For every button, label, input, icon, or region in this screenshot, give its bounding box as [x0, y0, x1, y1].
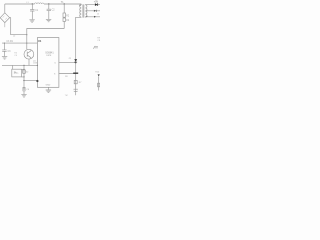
wire secondary return: [85, 16, 100, 18]
wire mid startup line: [27, 29, 64, 50]
wire bridge right vertex down and right: [10, 18, 27, 35]
wire secondary tap out: [85, 10, 100, 12]
labels: [6, 0, 100, 97]
zener VR1: [74, 59, 77, 62]
wire feedback line: [23, 65, 25, 94]
wire secondary top out: [85, 4, 100, 6]
node FB: [23, 80, 24, 81]
ground: [29, 20, 34, 22]
wire rail A: [2, 42, 37, 44]
transistor Q1: [24, 49, 34, 59]
node phase dots: [79, 5, 80, 6]
svg-text:C3 R1: C3 R1: [6, 41, 13, 43]
diode D6: [94, 10, 96, 12]
wire bridge top to rail: [4, 4, 6, 13]
ground: [46, 19, 51, 21]
capacitor C1: [32, 3, 33, 4]
svg-text:+5V: +5V: [94, 0, 99, 3]
wire opto to line: [21, 69, 24, 77]
node: [23, 65, 24, 66]
svg-text:U1: U1: [38, 39, 42, 43]
diode D5: [95, 3, 98, 6]
zener VR2 on feedback: [23, 70, 26, 73]
transformer core: [83, 4, 84, 17]
resistor R2: [63, 4, 65, 18]
IC bottom pin ground: [47, 87, 49, 89]
svg-text:C8: C8: [97, 40, 100, 42]
diode D3 dark bar: [73, 72, 78, 74]
optocoupler PC1: [12, 69, 22, 77]
ground: [21, 95, 26, 97]
diode D2: [63, 18, 66, 21]
wire emitter down: [28, 59, 30, 65]
wire rail B: [2, 64, 37, 66]
TL431 U3 right edge: [98, 74, 100, 76]
capacitor C2: [48, 3, 49, 4]
diode D7 mark: [94, 16, 96, 18]
wire top rail: [5, 3, 82, 5]
wire FB to IC: [24, 80, 37, 82]
node: [4, 43, 5, 44]
svg-text:TM: TM: [65, 95, 68, 97]
IC U1 box: [37, 38, 59, 88]
resistor R6: [74, 80, 77, 83]
capacitor C9 output: [93, 46, 98, 49]
transformer T1 primary: [80, 4, 82, 17]
node Vcc chain: [63, 3, 64, 4]
IC drain pin wire: [59, 62, 76, 64]
bridge rectifier BR1: [0, 13, 9, 23]
node bus junction: [26, 34, 27, 35]
transformer T1 secondary: [85, 5, 87, 17]
ground: [2, 57, 7, 59]
node: [23, 69, 24, 70]
wire drain rail: [76, 17, 82, 95]
inductor L1: [35, 3, 45, 4]
svg-text:DIP8: DIP8: [46, 55, 52, 57]
IC sense pin wire: [59, 73, 76, 75]
capacitor C3: [2, 43, 6, 56]
wire bridge bottom stub: [4, 23, 6, 28]
capacitor C7: [74, 89, 78, 91]
capacitor C6: [23, 88, 26, 89]
svg-text:GND: GND: [46, 84, 51, 86]
